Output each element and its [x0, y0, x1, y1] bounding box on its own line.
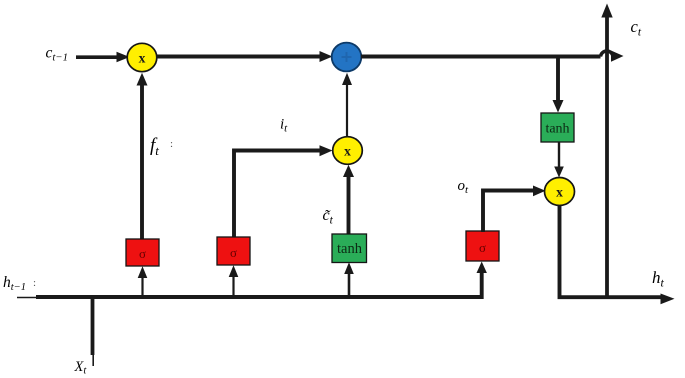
svg-text:x: x [139, 51, 146, 66]
svg-text:tanh: tanh [337, 241, 363, 257]
add node (blue circle) [332, 43, 362, 72]
wire: thin arrow from bottom line into sigma1 [138, 266, 148, 296]
wire: top line from add node to right with hop over vertical [361, 51, 624, 62]
svg-text:σ: σ [230, 245, 237, 260]
wire: f path from sigma1 up into forget gate [137, 73, 148, 240]
multiply gate (input) yellow circle [333, 137, 363, 165]
svg-text:σ: σ [479, 240, 486, 255]
wire: right vertical output line with up arrow (c_t) [601, 4, 612, 298]
wire: thin arrow from right tanh down into output gate [554, 142, 564, 178]
wire: thin arrow from input gate up into add node [342, 73, 352, 138]
wire: branch down to right tanh [553, 57, 564, 113]
wire: thin arrow from bottom line up into mid tanh [344, 262, 354, 296]
svg-text:x: x [344, 144, 351, 159]
wire: cell-state top line, c_t-1 arrow shaft [76, 52, 130, 63]
wire: bottom main line, thick, ends turning up into sigma3 [36, 262, 487, 298]
svg-text:x: x [556, 185, 563, 200]
wire: top line from forget gate to add node [156, 51, 333, 62]
svg-text:σ: σ [139, 246, 146, 261]
wire: o path from sigma3 up and right into output gate [483, 186, 546, 233]
svg-text::: : [170, 138, 173, 150]
sigma gate 1 (forget, red) [126, 239, 159, 266]
svg-text:tanh: tanh [545, 122, 569, 137]
multiply gate (forget) yellow circle [127, 43, 157, 71]
wire: i path from sigma2 up and right into input gate [234, 145, 333, 238]
wire: thick arrow from mid tanh up into input gate [343, 165, 354, 234]
sigma gate 3 (output, red) [466, 231, 499, 261]
svg-text::: : [33, 277, 36, 289]
wire: output path down from output gate and right to h_t arrow [560, 206, 675, 305]
candidate tanh box (middle, green) [332, 234, 367, 263]
output tanh box (right, green) [541, 113, 574, 142]
sigma gate 2 (input, red) [217, 237, 250, 265]
wire: thin arrow from bottom line into sigma2 [229, 265, 239, 296]
multiply gate (output) yellow circle [545, 178, 575, 206]
wire: bottom h_{t-1}/x_t main line, thin lead-in [17, 297, 40, 299]
wire: x_t input drop line [91, 296, 95, 355]
